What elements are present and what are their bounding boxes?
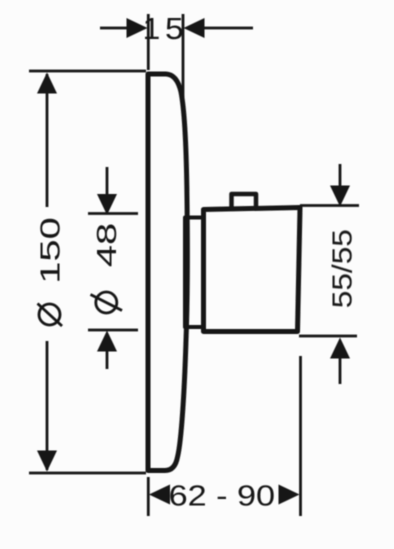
svg-text:150: 150: [35, 217, 66, 284]
dimension 62-90 left extension line: [147, 477, 150, 516]
dimension D48 bottom arrowhead: [97, 331, 117, 352]
dimension 55/55 bottom arrowhead: [330, 338, 350, 359]
collar sleeve: [185, 218, 204, 328]
dimension D48 bottom extension line: [88, 329, 138, 332]
svg-text:5: 5: [165, 11, 184, 45]
dimension D150 vertical dimension line upper segment: [46, 74, 49, 207]
dimension D48 top leader line: [106, 167, 109, 196]
dimension D150 bottom arrowhead: [37, 451, 57, 472]
dimension 62-90 left arrowhead: [149, 485, 170, 505]
label D48 diameter symbol slash: [91, 295, 123, 311]
dimension 15 right extension line: [182, 14, 185, 106]
svg-text:1: 1: [143, 12, 161, 46]
svg-text:62 - 90: 62 - 90: [169, 479, 275, 512]
dimension 55/55 top arrowhead: [330, 186, 350, 207]
dimension D150 bottom extension line: [29, 472, 146, 475]
label D150 diameter symbol circle: [39, 304, 60, 325]
dimension D48 bottom leader line: [106, 349, 109, 369]
dimension 15 left extension line: [147, 14, 150, 70]
dimension 15 left arrowhead: [127, 18, 148, 38]
label D48 diameter symbol circle: [96, 292, 117, 313]
dimension 62-90 right extension line: [299, 356, 302, 516]
dimension D48 top arrowhead: [97, 194, 117, 215]
dimension D150 top extension line: [29, 70, 146, 73]
knob body: [204, 208, 301, 332]
dimension 55/55 top extension line: [300, 204, 359, 207]
escutcheon plate outline: [148, 74, 187, 471]
dimension D150 vertical dimension line lower segment: [46, 341, 49, 470]
dimension D48 top extension line: [88, 212, 138, 215]
dimension 62-90 right arrowhead: [279, 485, 300, 505]
svg-text:48: 48: [92, 223, 123, 267]
svg-text:55/55: 55/55: [327, 229, 358, 308]
dimension 15 left leader line: [100, 27, 129, 30]
dimension 55/55 top leader line: [339, 164, 342, 188]
dimension 55/55 bottom leader line: [339, 356, 342, 384]
dimension 15 right leader line: [202, 27, 253, 30]
label D150 diameter symbol slash: [38, 304, 63, 327]
dimension 55/55 bottom extension line: [299, 335, 357, 338]
dimension D150 top arrowhead: [37, 73, 57, 94]
knob top tab: [232, 194, 257, 209]
dimension 15 right arrowhead: [184, 18, 205, 38]
